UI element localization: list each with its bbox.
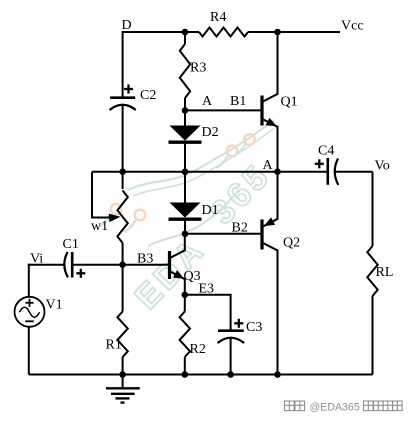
diode D1 bbox=[184, 172, 186, 203]
wire A-row horizontal bbox=[92, 171, 278, 173]
wire D down to C2 bbox=[122, 31, 124, 98]
resistor R1 bbox=[122, 265, 124, 312]
svg-text:B1: B1 bbox=[230, 94, 246, 109]
svg-text:R2: R2 bbox=[190, 342, 206, 357]
svg-text:C1: C1 bbox=[63, 237, 79, 252]
junction top of R3 bbox=[182, 29, 189, 36]
wire Vi corner down to V1 bbox=[28, 264, 30, 297]
svg-text:Vcc: Vcc bbox=[341, 19, 364, 34]
svg-text:A: A bbox=[202, 94, 213, 109]
junction Q2 collector bbox=[274, 371, 281, 378]
wire V1 down to bottom rail bbox=[28, 327, 30, 375]
potentiometer w1 bbox=[122, 172, 124, 189]
attribution 头条@EDA365电子论坛 bbox=[284, 400, 403, 414]
junction R1 / ground bbox=[119, 371, 126, 378]
svg-text:B3: B3 bbox=[137, 252, 153, 267]
resistor RL bbox=[367, 246, 377, 296]
wire Q1 emitter down to node A bbox=[277, 126, 279, 172]
capacitor C2 bbox=[110, 96, 135, 99]
wire Q2 emitter up to node A bbox=[277, 172, 279, 220]
wiper arrow of w1 bbox=[106, 216, 111, 218]
resistor R2 bbox=[184, 295, 186, 312]
junction B3 bbox=[119, 261, 126, 268]
svg-text:D2: D2 bbox=[202, 125, 219, 140]
capacitor C3 bbox=[218, 329, 244, 332]
svg-text:C4: C4 bbox=[318, 144, 334, 159]
capacitor C1 bbox=[64, 252, 68, 277]
wire C2 down to A-row bbox=[122, 105, 124, 172]
junction D1/B2/Q3 collector bbox=[182, 231, 189, 238]
junction R3/D2/B1 bbox=[182, 107, 189, 114]
svg-text:R3: R3 bbox=[190, 61, 206, 76]
svg-text:Q2: Q2 bbox=[283, 236, 300, 251]
svg-text:A: A bbox=[263, 158, 274, 173]
wire C4 to Vo corner bbox=[334, 171, 373, 173]
resistor R4 bbox=[199, 28, 248, 37]
junction E3 bbox=[182, 292, 189, 299]
wire base of Q1 (node A / B1) bbox=[185, 109, 261, 111]
wire Q3 emitter down to E3 bbox=[184, 279, 186, 295]
svg-text:@EDA365: @EDA365 bbox=[310, 402, 360, 414]
capacitor C4 bbox=[278, 171, 328, 173]
wire Vi to C1 bbox=[28, 264, 30, 266]
wire Q1 collector up bbox=[277, 32, 279, 95]
junction C3 bbox=[227, 371, 234, 378]
junction A-row / diode chain bbox=[182, 168, 189, 175]
svg-text:w1: w1 bbox=[91, 219, 108, 234]
svg-text:C3: C3 bbox=[246, 320, 262, 335]
svg-text:C2: C2 bbox=[140, 88, 156, 103]
junction top of Q1 collector bbox=[274, 29, 281, 36]
wire R4 to Vcc bbox=[248, 31, 340, 33]
wire Q2 collector down bbox=[277, 250, 279, 375]
wire top rail left (D to R4) bbox=[122, 31, 199, 33]
wire C3 down to bottom rail bbox=[230, 338, 232, 374]
wire Q3 collector up to B2 bbox=[184, 234, 186, 251]
svg-text:RL: RL bbox=[376, 265, 394, 280]
transistor Q2 bbox=[260, 220, 263, 250]
wire C1 to B3 / Q3 base bbox=[72, 264, 168, 266]
svg-text:D: D bbox=[122, 18, 132, 33]
svg-text:R4: R4 bbox=[210, 10, 226, 25]
source V1 bbox=[15, 297, 45, 327]
resistor R3 bbox=[184, 32, 186, 44]
svg-text:B2: B2 bbox=[232, 221, 248, 236]
svg-text:V1: V1 bbox=[46, 298, 63, 313]
junction A-row / C2 branch bbox=[119, 168, 126, 175]
node A junction (output) bbox=[274, 168, 281, 175]
wire E3 to C3 bbox=[185, 295, 231, 331]
wire Vo down to RL bbox=[372, 172, 374, 246]
wire base of Q2 (B2) bbox=[185, 233, 261, 235]
junction R2 bbox=[182, 371, 189, 378]
wire bottom rail bbox=[29, 374, 373, 376]
wire RL down to bottom rail bbox=[372, 296, 374, 375]
svg-text:Q1: Q1 bbox=[281, 95, 298, 110]
transistor Q3 bbox=[168, 251, 171, 279]
transistor Q1 bbox=[260, 96, 263, 126]
ground bbox=[122, 375, 124, 389]
diode D2 bbox=[184, 110, 186, 126]
svg-text:D1: D1 bbox=[202, 203, 219, 218]
svg-text:Vo: Vo bbox=[375, 159, 390, 174]
svg-text:R1: R1 bbox=[106, 338, 122, 353]
wire w1 wiper feedback loop bbox=[92, 172, 108, 218]
